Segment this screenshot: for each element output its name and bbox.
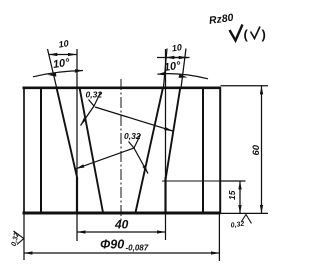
- svg-text:10°: 10°: [52, 57, 71, 71]
- phi90 left extension line: [23, 214, 25, 261]
- right bore throat bold vertical: [164, 178, 166, 213]
- angle 10deg right: arc with arrows: [158, 74, 209, 79]
- left bore throat bold vertical: [76, 178, 78, 213]
- slant A extension above top: [48, 49, 57, 88]
- svg-text:60: 60: [251, 144, 262, 155]
- outer rectangle bottom edge: [23, 212, 221, 215]
- svg-text:Φ90: Φ90: [100, 238, 124, 252]
- svg-text:10: 10: [171, 42, 182, 53]
- angle 10deg left: arc right arrowhead: [75, 69, 83, 73]
- slant B (left inner cone wall): [80, 88, 104, 213]
- roughness mark 1 leader left: [81, 106, 95, 126]
- dimension 10 right: dim line with arrows: [157, 57, 190, 59]
- inner right vertical: [202, 88, 204, 214]
- dimension 40 left extension below bottom is ref vertical; dim line: [77, 231, 166, 233]
- phi90 right extension line: [218, 214, 220, 262]
- angle 10deg right: arc left arrowhead: [157, 72, 166, 76]
- right reference vertical / 40 extension: [165, 49, 167, 240]
- svg-text:(: (: [244, 27, 249, 42]
- dimension 60 line: [261, 86, 263, 214]
- outer rectangle top edge: [23, 86, 221, 89]
- bottom edge extension to right: [221, 212, 269, 214]
- svg-text:10: 10: [58, 38, 69, 49]
- step extension line to 15 dimension: [220, 180, 246, 182]
- angle 10deg left: arc left arrowhead: [48, 73, 57, 77]
- slant C (right inner cone wall): [136, 88, 164, 213]
- top edge extension to right: [221, 85, 269, 87]
- angle 10deg right: arc right arrowhead: [179, 74, 188, 78]
- slant D extension above top: [181, 49, 186, 89]
- svg-text:40: 40: [114, 218, 129, 232]
- roughness mark 1 leader right: [95, 107, 173, 131]
- angle 10deg left: arc with arrows: [33, 71, 83, 77]
- svg-text:-0,087: -0,087: [126, 244, 149, 253]
- small check in parens: [251, 27, 261, 39]
- Rz80 big check: [230, 25, 243, 41]
- center line dash-dot: [120, 79, 122, 221]
- roughness mark 4 check pointing up: [242, 215, 252, 224]
- dimension 15 line: [239, 181, 241, 213]
- outer rectangle right edge: [219, 87, 221, 214]
- dimension 10 left: dim line with arrows: [49, 54, 77, 56]
- slant D (right outer cone wall): [166, 88, 181, 179]
- inner left vertical: [40, 88, 42, 214]
- roughness mark 2 leader right: [134, 148, 148, 174]
- roughness mark 3 check pointing right: [14, 231, 24, 245]
- step edge at 15 height: [162, 180, 220, 182]
- svg-text:15: 15: [227, 190, 237, 200]
- roughness mark 1 check: [89, 93, 101, 107]
- roughness mark 2 check: [129, 135, 141, 149]
- svg-text:10°: 10°: [163, 60, 182, 74]
- slant A (left outer cone wall): [57, 88, 78, 179]
- phi90 dimension line: [24, 252, 219, 254]
- outer rectangle left edge: [23, 87, 25, 214]
- slant C extension above top: [164, 49, 168, 88]
- left reference vertical / 40 extension: [76, 49, 78, 241]
- roughness mark 2 leader left: [76, 148, 134, 169]
- svg-text:): ): [262, 27, 266, 42]
